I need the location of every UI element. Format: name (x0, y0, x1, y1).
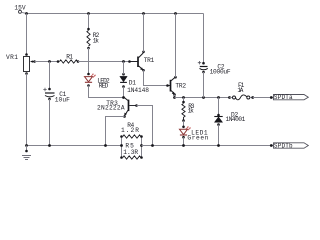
wire TR2 emitter to output row (174, 95, 176, 98)
wire bottom rail right segment (142, 145, 274, 147)
port SPDTa (274, 94, 309, 101)
resistor R2 (87, 28, 90, 50)
junction rail to R2 (87, 12, 90, 15)
svg-text:1.2R: 1.2R (121, 127, 139, 134)
svg-text:TR1: TR1 (144, 57, 155, 64)
wire C2 branch from rail corner (203, 14, 205, 64)
junction D2 on bottom rail (217, 144, 220, 147)
potentiometer VR1 (24, 53, 36, 75)
wire D1 bottom to node (123, 87, 125, 98)
wire R2 branch from rail (88, 14, 90, 30)
LED LED1 Green (180, 126, 191, 139)
wire R2 to LED2 (crosses wiper row, no junction) (88, 48, 90, 74)
junction output to C2 (202, 96, 205, 99)
wire TR2 collector to rail (175, 14, 177, 78)
svg-text:1k: 1k (188, 108, 195, 115)
svg-text:VR1: VR1 (6, 54, 18, 61)
transistor TR2 (166, 76, 177, 96)
junction at 15V node (25, 12, 28, 15)
wire TR3 emitter to bottom rail (L-shape) (106, 117, 125, 146)
junction LED1 on bottom rail (182, 144, 185, 147)
svg-text:R1: R1 (66, 53, 73, 60)
wire C2 to output row (203, 72, 205, 98)
wire left branch 15V to VR1 (26, 14, 28, 55)
resistor R4 (123, 135, 141, 138)
resistor R3 (182, 101, 185, 122)
svg-text:1k: 1k (93, 37, 99, 44)
svg-text:D1: D1 (129, 80, 137, 87)
ground (22, 146, 31, 160)
LED LED2 RED (85, 73, 96, 87)
transistor TR1 (128, 51, 145, 72)
wire fuse to SPDTa port (253, 97, 274, 99)
wire TR1 collector to rail (143, 14, 145, 52)
capacitor C2 (198, 61, 208, 73)
svg-text:1A: 1A (237, 87, 243, 94)
transistor TR3 (mirrored) (123, 97, 138, 118)
wire D1 top to control row (123, 62, 125, 75)
junction wire to D1 (122, 60, 125, 63)
node 15V terminal (19, 10, 27, 13)
svg-text:RED: RED (99, 82, 109, 89)
resistor R5 (123, 156, 141, 159)
svg-text:SPDTb: SPDTb (274, 143, 293, 150)
capacitor C1 (43, 88, 54, 101)
fuse F1 (228, 95, 254, 100)
wire R1 to TR1 base (78, 61, 137, 63)
svg-text:10uF: 10uF (55, 97, 70, 104)
junction output to D2 (217, 96, 220, 99)
resistor R1 (57, 60, 80, 63)
junction TR3 base on bottom rail (151, 144, 154, 147)
junction at SPDTb pin (270, 144, 273, 147)
node D1/LED2/TR3 collector (122, 96, 125, 99)
wire LED1 to bottom rail (183, 137, 185, 145)
junction at SPDTa pin (270, 96, 273, 99)
wire output row (175, 97, 230, 99)
diode D2 1N4001 (214, 114, 222, 126)
wire R3 to LED1 (183, 121, 185, 127)
wire R3 branch from output row (183, 98, 185, 103)
svg-text:TR2: TR2 (175, 82, 186, 89)
node shunt right bar (140, 135, 143, 159)
node shunt left bar (120, 135, 123, 159)
junction output to R3 (182, 96, 185, 99)
wire TR1 emitter to TR2 base (L-shape) (144, 70, 168, 85)
wire top supply rail (26, 13, 204, 15)
junction rail to TR1 collector (142, 12, 145, 15)
svg-text:Green: Green (187, 135, 208, 142)
junction ground node (25, 144, 28, 147)
wire VR1 wiper row (35, 61, 59, 63)
junction rail to TR2 collector (174, 12, 177, 15)
svg-text:1N4001: 1N4001 (226, 116, 246, 123)
svg-text:1N4148: 1N4148 (127, 87, 149, 94)
wire VR1 bottom to ground rail (26, 74, 28, 146)
wire bottom rail left segment (27, 145, 122, 147)
svg-text:2N2222A: 2N2222A (97, 105, 125, 112)
junction wiper to C1 (48, 60, 51, 63)
svg-text:SPDTa: SPDTa (274, 94, 293, 101)
junction C1 on bottom rail (48, 144, 51, 147)
junction TR3 emitter on bottom rail (104, 144, 107, 147)
wire TR3 base to bottom rail (L-shape) (137, 106, 153, 146)
junction TR2 emitter on output row (173, 96, 176, 99)
svg-text:1000uF: 1000uF (210, 68, 231, 75)
port SPDTb (274, 143, 309, 150)
wire LED2 to node (L-shape) (89, 86, 124, 98)
wire D2 to bottom rail (218, 125, 220, 146)
diode D1 1N4148 (120, 73, 127, 88)
svg-text:15V: 15V (14, 4, 25, 11)
wire C1 to ground rail (49, 99, 51, 146)
wire D2 branch from output row (218, 98, 220, 116)
svg-text:1.3R: 1.3R (123, 149, 138, 156)
wire C1 branch from wiper row (49, 62, 51, 90)
